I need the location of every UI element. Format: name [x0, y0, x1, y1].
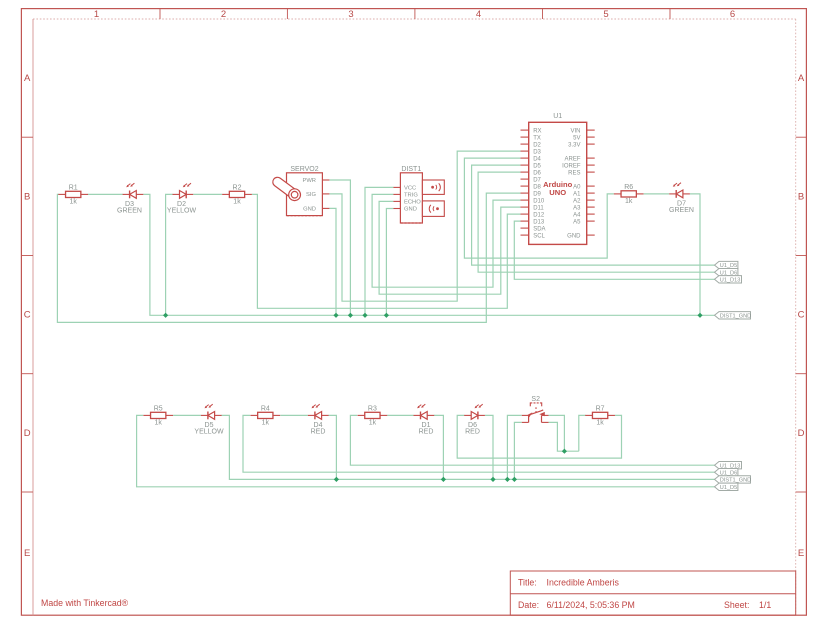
svg-text:1k: 1k [625, 198, 633, 205]
svg-text:E: E [24, 548, 30, 559]
servo SERVO2 [271, 166, 329, 216]
svg-text:4: 4 [476, 9, 481, 20]
svg-text:PWR: PWR [302, 178, 316, 184]
svg-text:YELLOW: YELLOW [167, 208, 197, 215]
LED D3 green [117, 183, 143, 215]
wire R3 to U1_D13 flag [350, 415, 714, 465]
wire S2 lower-left to DIST1_GND line [514, 422, 521, 479]
LED D4 red [308, 404, 329, 436]
junction S2/R7 [562, 449, 567, 454]
svg-text:D: D [24, 428, 31, 439]
wire D5 pin to U1_D5 flag [472, 165, 715, 265]
net flag U1_D6 bottom [715, 469, 738, 477]
svg-text:D8: D8 [533, 184, 541, 190]
wire R1 to D9 ground loop [57, 193, 520, 322]
svg-text:RED: RED [419, 429, 434, 436]
svg-text:1k: 1k [154, 420, 162, 427]
junction SERVO2 GND [333, 313, 338, 318]
wire R4 to D4led [280, 414, 308, 416]
svg-text:U1: U1 [553, 113, 562, 120]
wire S2 upper-right to junction [549, 415, 565, 451]
wire SERVO2 SIG to D3 pin [329, 151, 520, 301]
wire D4 pin to R6 [464, 158, 614, 258]
svg-text:3.3V: 3.3V [568, 142, 580, 148]
junction S2 a [505, 477, 510, 482]
svg-text:YELLOW: YELLOW [194, 429, 224, 436]
wire S2 upper-left to DIST1_GND line [507, 415, 521, 479]
net flag U1_D5 bottom [715, 483, 738, 491]
junction DIST1 GND [384, 313, 389, 318]
svg-text:C: C [24, 310, 31, 321]
arduino uno U1 [521, 113, 595, 244]
wire D13 pin to U1_D13 flag [514, 221, 714, 279]
svg-text:D: D [798, 428, 805, 439]
resistor R2 [222, 184, 252, 205]
svg-text:A: A [24, 73, 31, 84]
svg-text:D5: D5 [533, 163, 541, 169]
svg-text:RES: RES [568, 170, 580, 176]
wire D2 to R2 [193, 193, 222, 195]
svg-text:RED: RED [465, 429, 480, 436]
svg-text:B: B [24, 191, 30, 202]
svg-text:D6: D6 [533, 170, 541, 176]
wire DIST1 GND to bus A [386, 209, 393, 316]
svg-text:A0: A0 [573, 184, 581, 190]
wire D2 branch [166, 194, 173, 315]
net flag DIST1_GND bottom [715, 476, 752, 484]
resistor R7 [585, 405, 615, 426]
wire R3 to D1led [387, 414, 413, 416]
resistor R5 [143, 405, 173, 426]
svg-text:UNO: UNO [549, 188, 566, 197]
svg-text:D13: D13 [533, 219, 545, 225]
slide switch S2 [522, 396, 549, 422]
svg-text:B: B [798, 191, 804, 202]
svg-text:GND: GND [567, 233, 581, 239]
svg-text:U1_D5: U1_D5 [720, 485, 737, 491]
LED D6 red [464, 404, 485, 436]
svg-text:R4: R4 [261, 405, 270, 412]
svg-text:Made with Tinkercad®: Made with Tinkercad® [41, 598, 129, 608]
svg-text:A4: A4 [573, 212, 581, 218]
wire D7 to bus A [690, 194, 700, 315]
svg-text:S2: S2 [531, 396, 540, 403]
wire R6 to D7 [644, 193, 670, 195]
resistor R1 [58, 184, 88, 205]
svg-text:1k: 1k [262, 420, 270, 427]
svg-text:D2: D2 [533, 142, 541, 148]
svg-text:SCL: SCL [533, 233, 545, 239]
net flag U1_D6 top [715, 269, 738, 277]
LED D5 yellow [194, 404, 224, 436]
wire D6 pin to U1_D6 flag [478, 172, 714, 272]
svg-text:ECHO: ECHO [404, 200, 421, 206]
svg-text:GND: GND [303, 207, 316, 213]
wire R7 left leg [579, 415, 586, 451]
net flag U1_D13 top [715, 276, 742, 284]
svg-text:D10: D10 [533, 198, 545, 204]
wire DIST1 VCC to bus A [365, 187, 393, 315]
svg-text:RED: RED [311, 429, 326, 436]
junction D7/bus A [697, 313, 702, 318]
LED D7 green [669, 183, 694, 215]
svg-text:3: 3 [348, 9, 353, 20]
svg-text:R6: R6 [624, 184, 633, 191]
svg-text:D9: D9 [533, 191, 541, 197]
svg-text:R5: R5 [154, 405, 163, 412]
svg-text:5V: 5V [573, 135, 580, 141]
svg-text:U1_D13: U1_D13 [720, 277, 741, 283]
wire DIST1 TRIG to D10 pin [372, 194, 520, 287]
svg-text:D3: D3 [533, 149, 541, 155]
resistor R6 [614, 184, 644, 205]
svg-text:DIST1: DIST1 [401, 166, 421, 173]
wire D1led to DIST1_GND line [434, 415, 443, 479]
svg-text:Incredible Amberis: Incredible Amberis [547, 578, 620, 588]
wire D6led to DIST1_GND line [485, 415, 493, 479]
svg-text:1k: 1k [596, 420, 604, 427]
junction D6led [490, 477, 495, 482]
svg-text:A3: A3 [573, 205, 581, 211]
svg-text:A1: A1 [573, 191, 581, 197]
svg-text:5: 5 [603, 9, 608, 20]
resistor R3 [358, 405, 388, 426]
wire R4 to U1_D6 flag [243, 415, 715, 472]
svg-text:Date:: Date: [518, 600, 539, 610]
svg-text:GREEN: GREEN [669, 207, 694, 214]
svg-text:R2: R2 [233, 184, 242, 191]
svg-text:2: 2 [221, 9, 226, 20]
title block [510, 571, 795, 615]
wire D4led to DIST1_GND line [328, 415, 336, 479]
svg-text:DIST1_GND: DIST1_GND [720, 313, 751, 319]
junction D1led [441, 477, 446, 482]
svg-text:6: 6 [730, 9, 735, 20]
junction SERVO2 PWR [348, 313, 353, 318]
resistor R4 [250, 405, 280, 426]
LED D2 yellow [167, 183, 197, 215]
wire R1 to D3 [88, 193, 123, 195]
svg-text:D7: D7 [533, 177, 541, 183]
wire R5 to U1_D5 flag [137, 415, 715, 486]
svg-text:GREEN: GREEN [117, 208, 142, 215]
wire R5 to D5led [173, 414, 201, 416]
svg-text:R7: R7 [596, 405, 605, 412]
net flag U1_D5 top [715, 261, 738, 269]
svg-text:GND: GND [404, 207, 417, 213]
junction S2 b [512, 477, 517, 482]
svg-text:1: 1 [94, 9, 99, 20]
wire S2 lower-right to R7 left [549, 422, 579, 451]
svg-text:SDA: SDA [533, 226, 545, 232]
wire D6led to R7 [457, 415, 621, 458]
svg-text:Sheet:: Sheet: [724, 600, 749, 610]
junction DIST1 VCC [362, 313, 367, 318]
svg-text:VCC: VCC [404, 186, 416, 192]
svg-text:AREF: AREF [564, 156, 580, 162]
svg-text:Title:: Title: [518, 578, 537, 588]
svg-text:SIG: SIG [306, 192, 316, 198]
svg-text:E: E [798, 548, 804, 559]
svg-text:IOREF: IOREF [562, 163, 581, 169]
junction D2/bus A [163, 313, 168, 318]
svg-text:TX: TX [533, 135, 541, 141]
svg-text:C: C [798, 310, 805, 321]
net flag DIST1_GND top [715, 312, 752, 320]
wire D3 to bus A with DIST1_GND run [143, 194, 714, 315]
svg-text:RX: RX [533, 128, 541, 134]
wire D5led to DIST1_GND line [221, 415, 714, 479]
svg-text:1k: 1k [369, 420, 377, 427]
svg-text:R1: R1 [69, 184, 78, 191]
svg-text:6/11/2024, 5:05:36 PM: 6/11/2024, 5:05:36 PM [547, 600, 635, 610]
svg-text:D11: D11 [533, 205, 544, 211]
junction D4led [334, 477, 339, 482]
wire R2 to D12 [252, 194, 521, 308]
wire SERVO2 PWR to bus A [329, 180, 350, 315]
LED D1 red [414, 404, 435, 436]
svg-text:TRIG: TRIG [404, 193, 418, 199]
net flag U1_D13 bottom [715, 462, 742, 470]
wire SERVO2 GND to bus A [329, 208, 336, 315]
svg-text:VIN: VIN [570, 128, 580, 134]
svg-text:A: A [798, 73, 805, 84]
svg-text:1k: 1k [69, 199, 77, 206]
svg-text:R3: R3 [368, 405, 377, 412]
svg-text:A2: A2 [573, 198, 581, 204]
wire DIST1 ECHO to D11 pin [379, 201, 520, 294]
svg-text:D4: D4 [533, 156, 541, 162]
svg-text:D12: D12 [533, 212, 545, 218]
svg-text:SERVO2: SERVO2 [290, 166, 318, 173]
ultrasonic distance sensor DIST1 [393, 166, 444, 223]
svg-text:A5: A5 [573, 219, 581, 225]
svg-text:1k: 1k [233, 199, 241, 206]
svg-text:1/1: 1/1 [759, 600, 771, 610]
